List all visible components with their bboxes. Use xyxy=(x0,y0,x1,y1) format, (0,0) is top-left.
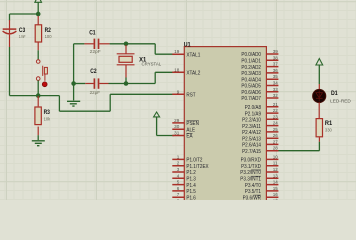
svg-text:1mF: 1mF xyxy=(19,34,26,39)
svg-text:P0.0/AD0: P0.0/AD0 xyxy=(241,52,261,58)
svg-text:XTAL2: XTAL2 xyxy=(186,71,200,77)
svg-text:ALE: ALE xyxy=(186,127,195,133)
svg-text:P1.4: P1.4 xyxy=(186,183,196,189)
svg-text:22pF: 22pF xyxy=(90,49,101,54)
svg-text:P0.7/AD7: P0.7/AD7 xyxy=(241,96,261,102)
svg-text:P0.6/AD6: P0.6/AD6 xyxy=(241,90,261,96)
svg-text:P0.1/AD1: P0.1/AD1 xyxy=(241,59,261,65)
svg-text:P0.3/AD3: P0.3/AD3 xyxy=(241,71,261,77)
svg-text:22pF: 22pF xyxy=(90,90,101,95)
svg-text:P3.0/RXD: P3.0/RXD xyxy=(241,158,262,164)
svg-text:LED-RED: LED-RED xyxy=(330,99,351,104)
svg-text:P1.5: P1.5 xyxy=(186,189,196,195)
svg-text:P0.5/AD5: P0.5/AD5 xyxy=(241,84,261,90)
svg-text:330: 330 xyxy=(325,127,332,132)
svg-text:D1: D1 xyxy=(331,90,338,97)
svg-text:C1: C1 xyxy=(89,29,96,36)
svg-text:P0.2/AD2: P0.2/AD2 xyxy=(241,65,261,71)
svg-text:P3.5/T1: P3.5/T1 xyxy=(245,189,261,195)
svg-text:EA: EA xyxy=(186,134,193,140)
svg-text:P3.4/T0: P3.4/T0 xyxy=(245,183,261,189)
svg-text:P3.1/TXD: P3.1/TXD xyxy=(241,164,261,170)
svg-text:R2: R2 xyxy=(45,27,52,34)
svg-text:XTAL1: XTAL1 xyxy=(186,52,200,58)
svg-text:P1.1/T2EX: P1.1/T2EX xyxy=(186,164,209,170)
svg-text:R1: R1 xyxy=(325,120,333,127)
svg-text:R3: R3 xyxy=(44,109,51,116)
svg-text:C3: C3 xyxy=(19,27,26,34)
svg-text:PSEN: PSEN xyxy=(186,121,199,127)
svg-text:U1: U1 xyxy=(184,41,191,48)
svg-text:100: 100 xyxy=(45,34,52,39)
svg-text:8: 8 xyxy=(177,198,180,200)
svg-text:P1.6: P1.6 xyxy=(186,195,196,200)
svg-text:P0.4/AD4: P0.4/AD4 xyxy=(241,77,261,83)
svg-text:P3.6/WR: P3.6/WR xyxy=(243,195,262,200)
svg-text:CRYSTAL: CRYSTAL xyxy=(142,61,162,66)
svg-text:P2.1/A9: P2.1/A9 xyxy=(245,111,261,117)
svg-text:P2.0/A8: P2.0/A8 xyxy=(245,105,261,111)
svg-text:P1.3: P1.3 xyxy=(186,177,196,183)
svg-text:P1.0/T2: P1.0/T2 xyxy=(186,158,202,164)
svg-text:P2.3/A11: P2.3/A11 xyxy=(242,124,261,130)
svg-text:P3.3/INT1: P3.3/INT1 xyxy=(240,177,261,183)
svg-text:P2.4/A12: P2.4/A12 xyxy=(242,130,261,136)
svg-text:P1.2: P1.2 xyxy=(186,170,196,176)
svg-text:P2.7/A15: P2.7/A15 xyxy=(242,149,261,155)
svg-text:P2.6/A14: P2.6/A14 xyxy=(242,143,261,149)
svg-text:17: 17 xyxy=(273,198,279,200)
svg-text:P2.2/A10: P2.2/A10 xyxy=(242,118,261,124)
svg-text:RST: RST xyxy=(186,93,195,99)
svg-text:10k: 10k xyxy=(44,117,51,122)
svg-text:C2: C2 xyxy=(90,68,97,75)
svg-text:P3.2/INT0: P3.2/INT0 xyxy=(240,170,261,176)
svg-text:P2.5/A13: P2.5/A13 xyxy=(242,136,261,142)
